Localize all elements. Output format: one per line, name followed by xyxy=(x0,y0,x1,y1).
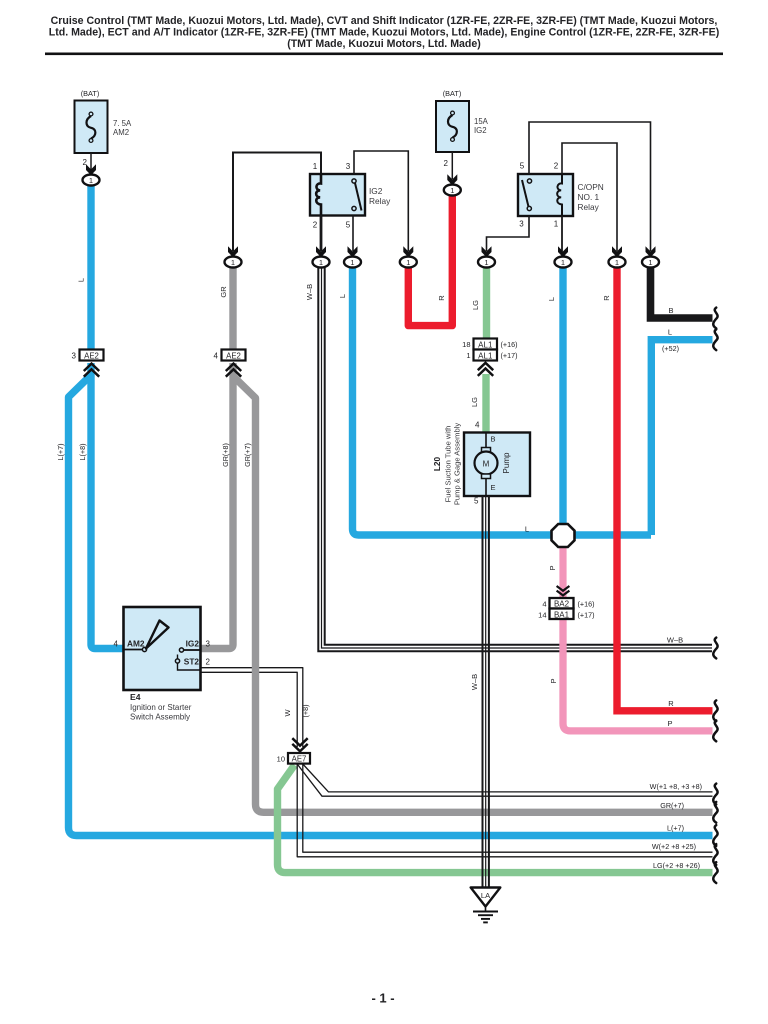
svg-text:B: B xyxy=(491,435,496,444)
svg-text:IG2: IG2 xyxy=(186,639,200,649)
svg-text:1: 1 xyxy=(648,258,652,267)
svg-text:IG2: IG2 xyxy=(474,126,487,135)
connector circle 1 L feed (IG2 pin5) xyxy=(344,246,361,267)
continuation curl P xyxy=(713,721,717,742)
svg-text:3: 3 xyxy=(206,640,211,649)
svg-text:4: 4 xyxy=(214,351,219,360)
svg-text:Ignition or Starter: Ignition or Starter xyxy=(130,703,192,712)
svg-text:5: 5 xyxy=(520,162,525,171)
connector circle 1 LG feed xyxy=(478,246,495,267)
svg-text:14: 14 xyxy=(538,611,546,620)
svg-text:1: 1 xyxy=(561,258,565,267)
connector circle 1 L feed (C/OPN pin1) xyxy=(555,246,572,267)
svg-text:W–B: W–B xyxy=(470,674,479,690)
svg-text:IG2: IG2 xyxy=(369,186,383,196)
svg-text:1: 1 xyxy=(350,258,354,267)
svg-text:LG: LG xyxy=(471,300,480,310)
wire L(+7) AE2 split to continuation (blue) xyxy=(69,375,713,836)
svg-text:NO. 1: NO. 1 xyxy=(578,192,600,202)
svg-text:BA2: BA2 xyxy=(554,600,570,609)
svg-text:GR(+8): GR(+8) xyxy=(221,443,230,467)
wire W(+1 +8, +3 +8) AE7 to continuation (white 2 lines) xyxy=(297,764,712,796)
wire R loop IG2 fuse circle to relay pin3 circle (red) xyxy=(408,194,452,326)
svg-text:ST2: ST2 xyxy=(184,657,200,667)
svg-text:(+17): (+17) xyxy=(578,611,595,620)
svg-text:P: P xyxy=(549,678,558,683)
svg-text:GR: GR xyxy=(219,286,228,298)
wire W/(+8) from E4 ST2 to AE7 (white 2 lines) xyxy=(200,668,303,747)
continuation curl GR(+7) xyxy=(713,802,717,823)
continuation curl W(+1) xyxy=(713,784,717,805)
title xyxy=(49,15,720,50)
chevron down above AE7 xyxy=(292,738,307,751)
svg-text:Relay: Relay xyxy=(369,196,391,206)
svg-text:(BAT): (BAT) xyxy=(443,89,462,98)
svg-text:(TMT Made, Kuozui Motors, Ltd.: (TMT Made, Kuozui Motors, Ltd. Made) xyxy=(287,38,481,50)
ground LA xyxy=(471,888,501,923)
svg-text:AE2: AE2 xyxy=(84,351,99,360)
wire R from C/OPN pin2 circle to continuation (red) xyxy=(617,267,713,711)
svg-text:L(+7): L(+7) xyxy=(56,444,65,461)
connector 3 AE2 xyxy=(72,350,104,361)
svg-text:15A: 15A xyxy=(474,117,489,126)
title rule xyxy=(45,53,723,56)
svg-text:P: P xyxy=(548,565,557,570)
wire C/OPN pin2 up right down to R circle xyxy=(562,143,617,251)
connector 10 AE7 xyxy=(277,753,310,764)
svg-text:Switch Assembly: Switch Assembly xyxy=(130,713,190,722)
svg-text:Cruise Control (TMT Made, Kuoz: Cruise Control (TMT Made, Kuozui Motors,… xyxy=(51,15,718,27)
svg-text:W–B: W–B xyxy=(305,284,314,300)
svg-text:4: 4 xyxy=(542,600,546,609)
svg-text:L: L xyxy=(525,525,529,534)
continuation curl W(+2) xyxy=(713,844,717,865)
wire C/OPN pin1 down to L circle xyxy=(561,216,563,251)
svg-text:Pump: Pump xyxy=(502,452,511,473)
wire IG2 relay pin2 down (black) xyxy=(320,215,323,251)
svg-text:2: 2 xyxy=(313,221,318,230)
continuation curl L(+7) xyxy=(713,825,717,846)
svg-text:1: 1 xyxy=(466,351,470,360)
wire P from BA1 to continuation (pink) xyxy=(563,618,713,731)
connector circle 1 B feed (C/OPN pin5) xyxy=(642,246,659,267)
chevron down above BA2 xyxy=(557,586,570,595)
chevron up below AE2 no2 xyxy=(226,364,241,377)
svg-text:1: 1 xyxy=(231,258,235,267)
svg-text:L(+8): L(+8) xyxy=(78,444,87,461)
svg-text:E4: E4 xyxy=(130,692,141,702)
wire P octagon to BA2 (pink) xyxy=(559,541,566,598)
connector circle 1 under IG2 fuse xyxy=(444,174,461,195)
svg-text:L: L xyxy=(547,297,556,301)
svg-text:1: 1 xyxy=(319,258,323,267)
E4 ignition or starter switch assembly xyxy=(114,607,211,722)
svg-text:4: 4 xyxy=(114,640,119,649)
connector circle 1 W-B feed xyxy=(313,246,330,267)
svg-text:(+8): (+8) xyxy=(301,705,310,718)
svg-text:(BAT): (BAT) xyxy=(81,89,100,98)
svg-text:R: R xyxy=(602,295,611,301)
svg-text:3: 3 xyxy=(346,162,351,171)
wire W(+2 +8 +25) AE7 to continuation (white 2 lines) xyxy=(297,764,712,857)
connector circle 1 under AM2 fuse xyxy=(83,164,100,185)
svg-text:1: 1 xyxy=(313,162,318,171)
svg-text:Pump & Gage Assembly: Pump & Gage Assembly xyxy=(453,423,462,506)
svg-text:2: 2 xyxy=(444,159,449,168)
connector circle 1 red loop left xyxy=(400,246,417,267)
wire LG from C/OPN pin3 circle to AL1 (green) xyxy=(483,267,490,339)
wire B from C/OPN pin5 circle to continuation (black) xyxy=(651,267,713,318)
wire C/OPN pin3 down left to LG circle xyxy=(487,216,530,251)
wire GR(+8) AE2 to E4 IG2 pin (gray) xyxy=(200,363,233,649)
svg-text:C/OPN: C/OPN xyxy=(578,182,604,192)
wire GR from circle down to AE2 (gray) xyxy=(229,267,236,350)
svg-text:Ltd. Made), ECT and A/T Indica: Ltd. Made), ECT and A/T Indicator (1ZR-F… xyxy=(49,27,720,39)
svg-text:L: L xyxy=(338,294,347,298)
svg-text:GR(+7): GR(+7) xyxy=(243,443,252,467)
svg-text:5: 5 xyxy=(474,497,479,506)
wire GR(+7) AE2 split to continuation (gray) xyxy=(233,376,713,812)
svg-text:W: W xyxy=(283,709,292,717)
connector 18/1 AL1 xyxy=(462,339,517,361)
connector circle 1 R feed (C/OPN pin2) xyxy=(609,246,626,267)
wire L(+52) vertical and to continuation (blue) xyxy=(651,340,712,535)
continuation curl L(+52) xyxy=(713,329,717,350)
svg-text:L20: L20 xyxy=(432,456,442,471)
svg-text:R: R xyxy=(437,295,446,301)
fuse IG2 15A xyxy=(436,89,489,179)
wire L from IG2 relay pin5 circle to junction (blue) xyxy=(353,267,652,535)
svg-text:1: 1 xyxy=(450,186,454,195)
svg-text:BA1: BA1 xyxy=(554,611,570,620)
svg-text:R: R xyxy=(668,699,674,708)
svg-text:AL1: AL1 xyxy=(478,352,493,361)
connector circle 1 feeding GR wire xyxy=(225,246,242,267)
svg-text:L: L xyxy=(668,328,672,337)
svg-text:(+16): (+16) xyxy=(578,600,595,609)
svg-text:AE7: AE7 xyxy=(292,754,307,763)
svg-text:(+52): (+52) xyxy=(662,344,679,353)
svg-text:LG(+2 +8 +26): LG(+2 +8 +26) xyxy=(653,861,700,870)
svg-text:1: 1 xyxy=(554,220,559,229)
svg-text:Fuel Suction Tube with: Fuel Suction Tube with xyxy=(444,426,453,503)
wire IG2 relay pin5 down xyxy=(352,215,354,251)
wire IG2 relay pin3 up right down xyxy=(354,151,408,251)
svg-text:1: 1 xyxy=(89,176,93,185)
svg-text:B: B xyxy=(668,306,673,315)
connector 4 AE2 xyxy=(214,350,246,361)
relay C/OPN NO.1 xyxy=(518,162,604,229)
svg-text:AL1: AL1 xyxy=(478,341,493,350)
continuation curl R xyxy=(713,700,717,721)
svg-text:4: 4 xyxy=(475,421,480,430)
svg-text:LG: LG xyxy=(470,397,479,407)
svg-text:1: 1 xyxy=(615,258,619,267)
chevron up below AE2 no1 xyxy=(84,364,99,377)
svg-text:1: 1 xyxy=(406,258,410,267)
svg-text:(+16): (+16) xyxy=(501,340,518,349)
svg-text:L: L xyxy=(77,278,86,282)
svg-text:1: 1 xyxy=(484,258,488,267)
fuse AM2 7.5A xyxy=(75,89,133,170)
continuation curl W-B xyxy=(713,638,717,659)
svg-text:5: 5 xyxy=(346,221,351,230)
wire L(+8) AE2 to E4 AM2 pin (blue) xyxy=(91,363,124,649)
svg-text:GR(+7): GR(+7) xyxy=(660,801,684,810)
svg-text:7. 5A: 7. 5A xyxy=(113,119,132,128)
svg-text:Relay: Relay xyxy=(578,202,600,212)
chevron up below AL1 xyxy=(478,363,493,376)
svg-text:AM2: AM2 xyxy=(127,639,145,649)
svg-text:AE2: AE2 xyxy=(226,351,241,360)
svg-text:P: P xyxy=(667,719,672,728)
wire from IG2 relay pin1 to GR circle (black) xyxy=(233,153,321,252)
svg-text:18: 18 xyxy=(462,340,470,349)
wire C/OPN pin5 up right down to B circle xyxy=(529,122,651,251)
svg-text:LA: LA xyxy=(481,891,490,900)
svg-text:W(+2 +8 +25): W(+2 +8 +25) xyxy=(652,842,696,851)
connector 4 BA2 / 14 BA1 xyxy=(538,598,594,620)
svg-text:E: E xyxy=(491,483,496,492)
continuation curl B xyxy=(713,308,717,329)
octagon junction xyxy=(552,524,575,547)
continuation curl LG(+2) xyxy=(713,862,717,883)
svg-text:3: 3 xyxy=(519,220,524,229)
svg-text:2: 2 xyxy=(206,658,211,667)
wire W-B pump pin5 down to ground (white-black) xyxy=(483,496,489,887)
wire LG from AL1 to pump pin4 (green) xyxy=(482,374,489,433)
svg-text:(+17): (+17) xyxy=(501,351,518,360)
svg-text:L(+7): L(+7) xyxy=(667,824,684,833)
svg-text:AM2: AM2 xyxy=(113,128,129,137)
svg-text:M: M xyxy=(483,460,490,469)
wire W-B from IG2 relay pin2 circle to continuation (white-black) xyxy=(318,267,712,651)
wire L from C/OPN pin1 circle to octagon (blue) xyxy=(559,267,566,528)
wire L from AM2 fuse circle down to AE2 (blue) xyxy=(87,186,94,351)
wire LG(+2 +8 +26) AE7 to continuation (green) xyxy=(278,765,713,873)
svg-text:3: 3 xyxy=(72,351,77,360)
fuel pump L20 assembly xyxy=(432,423,530,506)
relay IG2 xyxy=(310,162,391,230)
svg-text:W(+1 +8, +3 +8): W(+1 +8, +3 +8) xyxy=(650,782,702,791)
svg-text:10: 10 xyxy=(277,754,285,763)
svg-text:2: 2 xyxy=(554,162,559,171)
svg-text:W–B: W–B xyxy=(667,636,683,645)
svg-text:- 1 -: - 1 - xyxy=(371,991,394,1006)
